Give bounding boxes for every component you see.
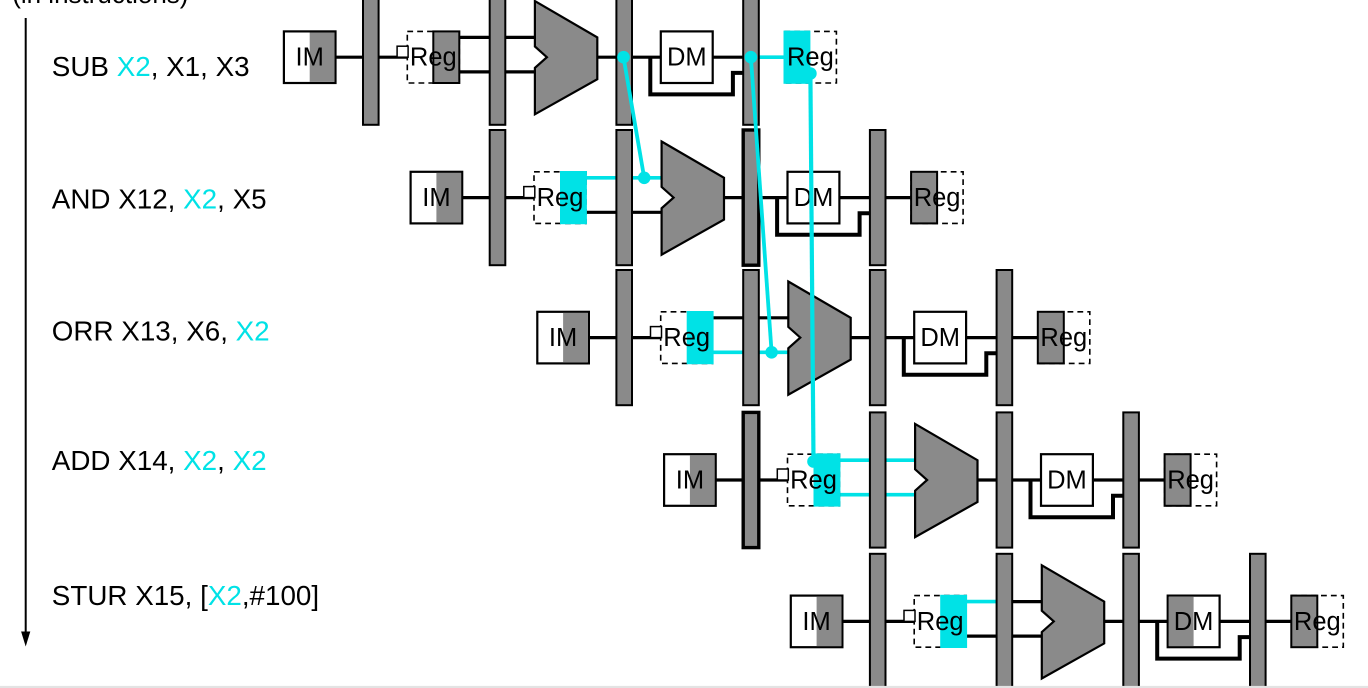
svg-text:Reg: Reg bbox=[1167, 467, 1214, 495]
pipeline register ID/EX row 3 bbox=[743, 270, 759, 405]
pipeline register ID/EX row 1 bbox=[490, 0, 506, 125]
wire ALU result bypass around DM row 5 bbox=[1157, 621, 1252, 658]
svg-text:ORR X13, X6, X2: ORR X13, X6, X2 bbox=[52, 315, 270, 346]
svg-text:IM: IM bbox=[676, 467, 704, 495]
pipeline register MEM/WB row 3 bbox=[997, 270, 1013, 405]
pipeline register IF/ID row 3 bbox=[616, 270, 632, 405]
wire IM to Reg row 5 bbox=[841, 620, 915, 623]
ALU row 2 bbox=[662, 142, 724, 255]
forwarding line EX/MEM row1 to ALU input row2 bbox=[624, 57, 645, 178]
IM box row 1 bbox=[284, 31, 336, 83]
wire Reg to ALU lower row 2 bbox=[585, 211, 663, 214]
svg-text:IM: IM bbox=[296, 44, 324, 72]
pipeline register ID/EX row 4 bbox=[870, 412, 886, 547]
Reg read box row 1 bbox=[397, 31, 459, 83]
svg-text:DM: DM bbox=[1174, 608, 1214, 636]
junction dot EX/MEM row1 bbox=[617, 51, 630, 64]
svg-text:Reg: Reg bbox=[917, 608, 964, 636]
Reg write box row 3 bbox=[1038, 312, 1090, 364]
wire DM to Reg write row 5 bbox=[1219, 620, 1293, 623]
wire Reg to ALU upper row 3 bbox=[712, 316, 790, 319]
Reg read box row 3 bbox=[651, 311, 714, 364]
pipeline register MEM/WB row 4 bbox=[1123, 412, 1139, 547]
pipeline register IF/ID row 5 bbox=[870, 554, 886, 688]
forwarding wire Reg to ID/EX register row 5 bbox=[964, 600, 1002, 604]
svg-text:STUR X15, [X2,#100]: STUR X15, [X2,#100] bbox=[52, 580, 319, 611]
wire ALU result bypass around DM row 3 bbox=[904, 338, 999, 375]
forwarding wire MEM/WB register to Reg write row 1 bbox=[751, 55, 787, 59]
wire IM to Reg row 3 bbox=[588, 336, 662, 339]
Reg read box row 2 bbox=[524, 171, 587, 224]
forwarding line Reg write row1 down to Reg read row4 bbox=[810, 74, 813, 462]
pipeline register IF/ID row 1 bbox=[363, 0, 379, 125]
junction dot Reg write row1 bbox=[804, 67, 817, 80]
svg-text:IM: IM bbox=[802, 608, 830, 636]
Reg read box row 5 bbox=[904, 595, 967, 648]
svg-text:ADD X14, X2, X2: ADD X14, X2, X2 bbox=[52, 445, 267, 476]
wire DM to Reg write row 4 bbox=[1092, 478, 1166, 481]
svg-text:Reg: Reg bbox=[1040, 324, 1087, 352]
forwarding line MEM/WB row1 to ALU input row3 bbox=[751, 57, 772, 352]
svg-text:Reg: Reg bbox=[663, 324, 710, 352]
svg-text:Reg: Reg bbox=[1294, 608, 1341, 636]
wire ALU result bypass around DM row 4 bbox=[1031, 480, 1126, 517]
pipeline register EX/MEM row 4 bbox=[997, 412, 1013, 547]
DM box row 1 bbox=[661, 31, 713, 83]
pipeline register MEM/WB row 1 bbox=[743, 0, 759, 125]
pipeline register EX/MEM row 1 bbox=[616, 0, 632, 125]
wire DM to Reg write row 3 bbox=[965, 336, 1039, 339]
junction dot ALU upper input row2 bbox=[638, 172, 651, 185]
wire ALU result bypass around DM row 1 bbox=[650, 57, 745, 94]
wire Reg to ALU lower row 5 bbox=[965, 634, 1043, 637]
wire Reg to ALU upper row 1 bbox=[458, 36, 536, 39]
wire Reg to ALU lower row 1 bbox=[458, 70, 536, 73]
DM box row 3 bbox=[914, 312, 966, 364]
forwarding wire Reg to ALU lower row 3 bbox=[711, 350, 790, 354]
svg-text:DM: DM bbox=[1047, 467, 1087, 495]
pipeline register EX/MEM row 2 bbox=[743, 130, 759, 265]
ALU row 3 bbox=[788, 282, 850, 395]
wire ALU to DM row 1 bbox=[596, 56, 662, 59]
wire DM to Reg write row 2 bbox=[838, 196, 912, 199]
svg-text:AND X12, X2, X5: AND X12, X2, X5 bbox=[52, 184, 267, 215]
svg-text:Reg: Reg bbox=[914, 184, 961, 212]
IM box row 2 bbox=[411, 172, 463, 224]
wire IM to Reg row 2 bbox=[461, 196, 535, 199]
forwarding wire Reg to ALU upper row 2 bbox=[584, 176, 663, 180]
IM box row 5 bbox=[791, 596, 843, 648]
svg-text:Reg: Reg bbox=[410, 44, 457, 72]
ALU row 1 bbox=[535, 1, 597, 114]
pipeline register IF/ID row 4 bbox=[743, 412, 759, 547]
wire DM to Reg write row 1 bbox=[712, 56, 786, 59]
pipeline register EX/MEM row 3 bbox=[870, 270, 886, 405]
program order arrow bbox=[21, 18, 30, 647]
Reg write box row 1 bbox=[784, 31, 837, 84]
junction dot MEM/WB row1 bbox=[745, 51, 758, 64]
wire IM to Reg row 4 bbox=[715, 478, 789, 481]
wire ALU result bypass around DM row 2 bbox=[777, 198, 872, 235]
wire IM to Reg row 1 bbox=[335, 56, 409, 59]
svg-text:DM: DM bbox=[920, 324, 960, 352]
pipeline register IF/ID row 2 bbox=[490, 130, 506, 265]
svg-text:SUB X2, X1, X3: SUB X2, X1, X3 bbox=[52, 51, 250, 82]
forwarding wire Reg to ALU upper row 4 bbox=[838, 458, 917, 462]
Reg write box row 4 bbox=[1165, 454, 1217, 506]
DM box row 2 bbox=[788, 172, 840, 224]
IM box row 4 bbox=[664, 454, 716, 506]
svg-text:Reg: Reg bbox=[790, 467, 837, 495]
svg-text:IM: IM bbox=[422, 184, 450, 212]
bottom border line bbox=[0, 686, 1368, 688]
pipeline register ID/EX row 2 bbox=[616, 130, 632, 265]
forwarding wire Reg to ALU lower row 4 bbox=[838, 493, 917, 497]
DM box row 5 bbox=[1168, 596, 1220, 648]
junction dot ALU lower input row3 bbox=[765, 346, 778, 359]
Reg write box row 5 bbox=[1291, 596, 1343, 648]
wire ALU to DM row 2 bbox=[723, 196, 789, 199]
pipeline register ID/EX row 5 bbox=[997, 554, 1013, 688]
IM box row 3 bbox=[537, 312, 589, 364]
Reg write box row 2 bbox=[911, 172, 963, 224]
Reg read box row 4 bbox=[777, 453, 840, 506]
pipeline register MEM/WB row 2 bbox=[870, 130, 886, 265]
DM box row 4 bbox=[1041, 454, 1093, 506]
wire Reg to ALU upper row 5 (from ID/EX register) bbox=[997, 600, 1043, 603]
ALU row 4 bbox=[915, 424, 977, 537]
ALU row 5 bbox=[1042, 565, 1104, 678]
svg-text:DM: DM bbox=[667, 44, 707, 72]
wire ALU to DM row 5 bbox=[1103, 620, 1169, 623]
pipeline register EX/MEM row 5 bbox=[1123, 554, 1139, 688]
pipeline register MEM/WB row 5 bbox=[1250, 554, 1266, 688]
svg-text:(in instructions): (in instructions) bbox=[12, 0, 188, 9]
svg-text:IM: IM bbox=[549, 324, 577, 352]
wire ALU to DM row 3 bbox=[850, 336, 916, 339]
junction dot Reg read row4 bbox=[807, 455, 820, 468]
wire ALU to DM row 4 bbox=[977, 478, 1043, 481]
svg-text:Reg: Reg bbox=[537, 184, 584, 212]
